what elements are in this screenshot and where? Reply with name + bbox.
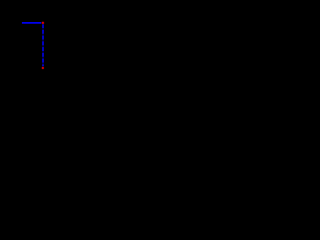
wire W2 (vertical dashed segment, underlying dark-blue run): [42, 24, 44, 66]
unconnected end marker (red dot at bottom wire end): [41, 67, 44, 70]
junction (red node dot at wire corner): [41, 21, 44, 24]
wire W2 bright dash overlay: [42, 24, 44, 66]
wire W1 (horizontal segment into junction): [22, 22, 41, 24]
